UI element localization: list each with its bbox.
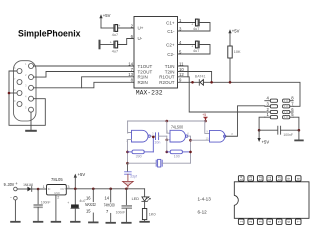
ground bar under minus terminal (11, 221, 20, 223)
wire DB9 pin3 to MAX232 R1IN pin13 (34, 77, 135, 88)
svg-text:10: 10 (278, 176, 282, 180)
capacitor C7 10n series (156, 133, 159, 140)
node junction at C5 (37, 188, 40, 191)
wire gate2 output to gate3 input2 (191, 139, 210, 141)
svg-text:33pf: 33pf (130, 175, 137, 179)
svg-text:9..30V: 9..30V (4, 182, 15, 187)
svg-text:12: 12 (259, 176, 263, 180)
wire R1 to node on R2OUT line (229, 58, 231, 82)
capacitor C4 4u7 polarized (191, 41, 199, 48)
wire gate2 output bus down to crystal (188, 136, 191, 163)
wire C1 to U1 pin 2 (118, 27, 134, 29)
svg-text:390: 390 (136, 154, 142, 158)
wire U1 pin 6 to capacitor C2 (118, 39, 134, 45)
wire MAX232 pin15 to ground (92, 213, 94, 222)
svg-text:13: 13 (128, 72, 133, 77)
node junction card +5V (258, 129, 261, 132)
svg-text:T1OUT: T1OUT (138, 64, 153, 69)
capacitor C3 4u7 polarized (191, 19, 199, 26)
power +5V down flag card (258, 130, 270, 145)
wire rail down to C6 (74, 189, 76, 205)
wire DB9 pin2 to MAX232 T2OUT pin7 (34, 72, 135, 78)
wire gate1 input2 node down to R2 and crystal (128, 140, 132, 164)
wire crystal node down to C8 (127, 163, 129, 171)
svg-text:C2-: C2- (167, 52, 175, 57)
svg-text:LED: LED (132, 197, 140, 201)
power +5V flag for R1 pullup (228, 28, 239, 46)
node junction R2 left (126, 151, 129, 154)
resistor network RN1 pins 4,3,2,1 left column (265, 99, 278, 119)
svg-text:R1OUT: R1OUT (159, 75, 175, 80)
svg-text:4u7: 4u7 (193, 49, 199, 53)
svg-text:2: 2 (57, 196, 59, 200)
IC U1 pin numbers left (128, 23, 133, 82)
node junction gate1 output (152, 136, 155, 139)
capacitor C1 4u7 polarized (114, 24, 121, 32)
diode D1 1N4148 (27, 187, 31, 192)
wire LED to resistor R4 (144, 202, 146, 209)
svg-text:3: 3 (259, 221, 263, 223)
NAND gate G1 74LS00 pins 1,2,3 (126, 130, 154, 142)
svg-text:R2IN: R2IN (138, 80, 148, 85)
power +5V flag top left (99, 13, 110, 28)
svg-text:4u7: 4u7 (112, 50, 118, 54)
DIP-14 bottom pin numbers rotated (240, 221, 301, 223)
wire 74HC00 pin14 supply stub (110, 189, 112, 202)
svg-text:R1IN: R1IN (138, 75, 148, 80)
svg-text:7: 7 (297, 221, 301, 223)
wire U1 pin 4 to capacitor C4 (178, 44, 196, 46)
wire +5 tie line to gate inputs (128, 120, 206, 122)
svg-text:5: 5 (278, 221, 282, 223)
wire C3 loop to U1 pin 3 (178, 23, 211, 32)
svg-text:MAX-232: MAX-232 (136, 89, 163, 96)
svg-text:+: + (67, 201, 69, 205)
node junction card ground (298, 129, 301, 132)
capacitor C9 100nF (122, 206, 131, 208)
svg-text:BAT41: BAT41 (195, 75, 206, 79)
capacitor C5 100nF (34, 205, 42, 207)
wire gate3 output clock to card (226, 106, 265, 136)
wire C2 to ground bar (100, 44, 114, 46)
wire C8 to ground triangle (127, 174, 129, 181)
wire U1 pin 10 T2IN down to R2OUT line (178, 72, 212, 83)
wire MAX232 pin16 supply stub (92, 189, 94, 202)
DIP-14 top pin numbers rotated (0, 0, 1, 1)
svg-text:C2+: C2+ (166, 42, 175, 47)
DIP-14 top pins 14-8 (238, 176, 301, 181)
node junction R2OUT at diode anode (191, 81, 194, 84)
wire DB9 pin3 branch to MAX232 R2IN pin8 (82, 82, 134, 88)
wire minus terminal to ground (14, 200, 16, 221)
connector X1 pin 9 (14, 99, 22, 107)
ground bar under C9 (122, 222, 131, 224)
connector X1 pin 7 (14, 77, 22, 85)
resistor network RN1 pin numbers right (291, 96, 294, 118)
connector X1 pin 5 (25, 106, 34, 113)
svg-text:+: + (191, 22, 193, 26)
ground bar under C6 (71, 221, 80, 223)
svg-text:C1+: C1+ (166, 20, 175, 25)
connector X1 pin 3 (25, 84, 34, 91)
svg-text:+: + (110, 40, 112, 44)
node junction R3 left (166, 151, 169, 154)
power +5 flag red on gate input line (202, 113, 207, 121)
wire card cap right to RN1 pin5 (281, 117, 299, 130)
svg-text:1-4-13: 1-4-13 (198, 196, 212, 201)
wire DB9 pin1 to MAX232 T1OUT pin14 (34, 65, 135, 67)
wire tie line to gate3 input1 (205, 121, 210, 133)
connector X1 pin 8 (14, 88, 22, 96)
svg-text:R2OUT: R2OUT (159, 80, 175, 85)
svg-text:2: 2 (249, 221, 253, 223)
capacitor C6 4u7 polarized (67, 201, 79, 208)
wire C4 loop to U1 pin 5 (178, 45, 211, 55)
svg-text:1: 1 (240, 221, 244, 223)
node junction at bus pin8 (8, 92, 11, 95)
svg-text:+: + (191, 44, 193, 48)
svg-text:1: 1 (43, 185, 45, 189)
resistor network RN1 pins 8,7,6,5 right column (283, 99, 294, 119)
svg-text:+5: +5 (202, 113, 206, 117)
svg-text:IN: IN (48, 187, 51, 191)
wire card ground stub (298, 130, 300, 140)
NAND gate G3 74LS00 pins 4,5,6 (206, 130, 234, 143)
node junction 10K on reset line (229, 81, 232, 84)
terminal input minus (14, 196, 18, 200)
svg-text:GND: GND (54, 191, 60, 195)
svg-text:1K0: 1K0 (149, 212, 156, 216)
wire RN1 pin1 down to card supply (259, 117, 265, 130)
LED D3 (142, 196, 151, 201)
node junction +5 flag (204, 120, 207, 123)
svg-text:14: 14 (128, 62, 133, 67)
svg-text:OUT: OUT (60, 187, 66, 191)
regulator IC1 78L05 body (47, 185, 67, 195)
wire diode to regulator input (32, 188, 47, 190)
svg-text:8: 8 (297, 178, 301, 180)
wire stub DB9 pin8 to bus (9, 92, 17, 94)
svg-text:1N4148: 1N4148 (23, 183, 33, 187)
wire rail corner down to LED (144, 189, 146, 197)
wire 74HC00 pin7 to ground (110, 213, 112, 222)
connector X1 pin 1 (25, 62, 34, 69)
terminal input plus (14, 187, 18, 191)
node junction rail at C6 (74, 188, 77, 191)
svg-text:T2OUT: T2OUT (138, 69, 153, 74)
svg-text:4: 4 (268, 221, 272, 223)
wire U1 pin 1 to capacitor C3 (178, 22, 196, 24)
svg-text:U-: U- (138, 36, 143, 41)
IC U1 MAX-232 body (134, 17, 178, 89)
svg-text:SimplePhoenix: SimplePhoenix (18, 28, 81, 39)
svg-text:16: 16 (86, 196, 91, 201)
svg-text:74HC00: 74HC00 (104, 203, 115, 208)
svg-text:3: 3 (67, 185, 69, 189)
regulator pin labels (48, 187, 67, 195)
svg-text:100: 100 (174, 154, 180, 158)
ground bar under 74HC00 stub (106, 222, 115, 224)
resistor R4 1K0 (142, 209, 146, 220)
wire node down to C5 (37, 189, 39, 204)
node junction rail MAX232 supply (92, 188, 95, 191)
svg-text:T1IN: T1IN (165, 64, 175, 69)
diode D2 BAT41 (199, 80, 203, 86)
svg-text:4u7: 4u7 (112, 33, 118, 37)
wire rail down to C9 (125, 189, 127, 206)
ground bar under MAX232 stub (89, 221, 98, 223)
connector X1 pin 4 (25, 95, 34, 102)
ground triangle under C8 (123, 181, 134, 187)
node junction crystal left (126, 162, 129, 165)
svg-text:+5V: +5V (103, 13, 111, 18)
wire card cap left (259, 129, 277, 131)
resistor network RN1 pin numbers left (266, 96, 269, 118)
wire U1 pin 12 R1OUT down to card data line (178, 77, 265, 112)
svg-text:74LS00: 74LS00 (171, 125, 184, 130)
svg-text:78L05: 78L05 (51, 177, 63, 182)
svg-text:14: 14 (240, 176, 244, 180)
svg-text:MAX232: MAX232 (85, 202, 96, 207)
wire crystal right lead (162, 162, 190, 164)
connector X1 pin 2 (25, 73, 34, 80)
wire DB9 left bus pins 6-8 (9, 71, 45, 125)
wire gate1 output (150, 135, 155, 137)
svg-text:+5V: +5V (262, 140, 270, 145)
svg-text:4u7: 4u7 (193, 27, 199, 31)
node junction gate2 input tie (166, 120, 169, 123)
svg-text:C1-: C1- (167, 29, 175, 34)
svg-text:T2IN: T2IN (165, 69, 175, 74)
node junction R3 right (189, 151, 192, 154)
svg-text:9: 9 (287, 178, 291, 180)
ground bar under C5 (34, 221, 43, 223)
wire plus terminal to diode D1 (17, 188, 27, 190)
svg-text:+: + (118, 24, 120, 28)
node junction rail 74HC00 supply (109, 188, 112, 191)
svg-text:6-12: 6-12 (198, 209, 208, 214)
DIP-14 bottom pins 1-7 (238, 219, 301, 224)
svg-text:10K: 10K (234, 50, 241, 54)
ground bar card (295, 139, 303, 141)
capacitor C10 100nF card (278, 126, 281, 134)
wire C5 to ground (37, 207, 39, 221)
IC U1 inner pin names left (138, 26, 153, 86)
connector X1 DB9 outline (14, 61, 37, 121)
capacitor C8 33pf (125, 172, 132, 174)
svg-text:100nF: 100nF (41, 200, 51, 204)
svg-text:U+: U+ (138, 26, 144, 31)
wire C9 to ground (125, 209, 127, 223)
wire +5V to capacitor C1 (101, 27, 114, 29)
ground bar left of C2 (99, 41, 101, 49)
wire U1 pin 9 R2OUT to diode (178, 81, 200, 83)
node junction C7 out (166, 139, 169, 142)
ground bar under regulator (52, 221, 61, 223)
svg-text:15: 15 (86, 208, 91, 213)
svg-text:10n: 10n (154, 141, 160, 145)
IC U1 pin numbers right (179, 18, 184, 83)
wire C6 to ground (74, 208, 76, 221)
node junction rail C9 (125, 188, 128, 191)
node junction T2IN on reset line (210, 81, 213, 84)
wire crystal left lead (128, 162, 157, 164)
resistor R3 feedback gate2 (167, 150, 191, 154)
IC U1 inner pin names right (159, 20, 175, 85)
svg-text:+5V: +5V (78, 172, 86, 177)
svg-text:+5V: +5V (232, 28, 240, 33)
wire +5V rail from regulator output (66, 188, 144, 190)
svg-text:100nF: 100nF (283, 133, 293, 137)
ground GND1 bar under DB9 pin5 (26, 130, 36, 132)
NAND gate G2 74LS00 pins 4,5,6 (166, 129, 190, 142)
wire U1 pin 11 T1IN join pin 12 (178, 66, 189, 77)
svg-text:6: 6 (287, 221, 291, 223)
wire regulator GND to ground (55, 195, 57, 221)
capacitor C2 4u7 polarized (110, 40, 118, 48)
wire C7 to gate2 input2 (159, 135, 167, 137)
resistor R2 feedback gate1 (128, 136, 154, 154)
wire tie line to gate1 input1 (128, 121, 132, 133)
label MAX232 supply pins 16 15 (85, 196, 96, 214)
regulator pin numbers (43, 185, 70, 200)
crystal Q1 (156, 159, 162, 167)
svg-text:11: 11 (268, 177, 272, 181)
label 74HC00 supply pins 14 7 (104, 195, 115, 214)
connector X1 pin 6 (14, 66, 22, 74)
wire DB9 pin5 to ground (30, 112, 32, 130)
svg-text:14: 14 (105, 195, 110, 200)
power +5V flag on rail (74, 172, 86, 189)
IC package DIP-14 body (234, 182, 309, 219)
resistor R1 10K (228, 46, 232, 58)
wire R4 to ground (144, 220, 146, 222)
svg-text:13: 13 (249, 176, 253, 180)
wire tie line to gate2 input1 (167, 121, 170, 133)
node junction gate2 output (189, 139, 192, 142)
ground bar under R4 (140, 221, 149, 223)
svg-text:100nF: 100nF (116, 211, 126, 215)
wire C7 node to gate2 input2 and R3 (166, 136, 168, 152)
wire diode to card reset line (203, 82, 300, 106)
